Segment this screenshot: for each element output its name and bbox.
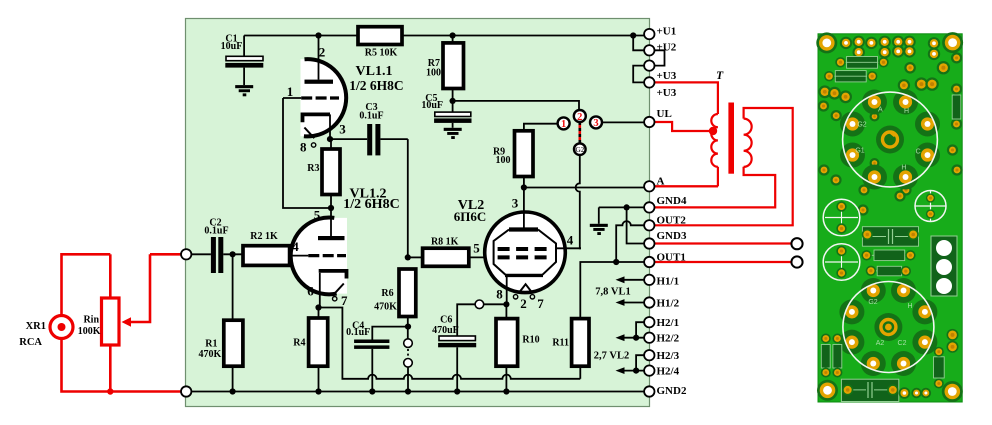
resistor R3	[330, 139, 332, 149]
junction R7 top at rail	[450, 32, 456, 38]
VL2 anode pin 3	[523, 188, 525, 230]
svg-text:R5 10K: R5 10K	[365, 48, 398, 59]
resistor R10	[496, 319, 518, 367]
wire third terminal to +U3 inner link	[633, 66, 644, 83]
svg-text:H: H	[904, 108, 909, 115]
svg-text:GND4: GND4	[657, 195, 687, 207]
VL1.1 anode lead pin 2	[318, 36, 320, 80]
wire primary bottom to terminal A	[655, 185, 718, 187]
junction C4 branch	[405, 324, 411, 330]
junction R1 at rail	[230, 388, 236, 394]
junction VL2 cathode node	[503, 301, 509, 307]
wire tap3 to UL terminal	[602, 121, 644, 123]
svg-text:1: 1	[287, 84, 294, 99]
wire OUT1 to R11	[580, 262, 644, 319]
ground below C5	[444, 128, 462, 131]
VL2 heater	[519, 284, 533, 293]
svg-text:H2/4: H2/4	[657, 366, 680, 378]
svg-text:A2: A2	[876, 340, 885, 347]
svg-text:470K: 470K	[199, 349, 222, 360]
junction OUT2 to OUT1 line	[613, 259, 619, 265]
svg-text:T: T	[716, 70, 724, 82]
VL2 cathode pin 8 lead	[506, 276, 508, 304]
svg-text:4: 4	[567, 233, 574, 248]
junction R4 at rail	[315, 388, 321, 394]
resistor R6 470K	[399, 269, 416, 317]
input terminal top	[181, 249, 191, 259]
wire +U1 to +U2 link	[633, 36, 645, 51]
svg-text:UL: UL	[657, 108, 672, 120]
svg-text:+U2: +U2	[657, 41, 677, 53]
junction C6 at rail	[454, 388, 460, 394]
capacitor C6 470uF	[439, 336, 475, 341]
svg-text:G2: G2	[868, 299, 877, 306]
pentode VL2 envelope	[485, 212, 566, 293]
svg-text:5: 5	[314, 208, 321, 223]
VL2 screen grid dashes	[498, 247, 549, 251]
svg-text:7,8 VL1: 7,8 VL1	[595, 287, 630, 298]
terminal row on right edge	[644, 26, 687, 397]
wire OUT1 to speaker terminal	[655, 261, 792, 263]
schematic panel background	[186, 19, 650, 407]
svg-text:OUT2: OUT2	[657, 214, 687, 226]
resistor R8 1K	[408, 256, 423, 258]
wiper arrow of Rin	[128, 254, 150, 322]
VL1.2 cathode pin 6	[319, 271, 347, 279]
svg-text:R11: R11	[552, 338, 569, 349]
tap circle 3	[590, 116, 602, 128]
capacitor C5 10uF	[452, 101, 454, 112]
svg-text:2: 2	[520, 296, 527, 311]
jumper circle at VL2 cathode	[475, 300, 484, 309]
VL1.1 grid pin 1	[283, 97, 301, 99]
wire terminal A red stub	[655, 185, 718, 187]
svg-text:H: H	[907, 303, 912, 310]
svg-text:C2: C2	[898, 340, 907, 347]
junction R6 R8 node	[405, 254, 411, 260]
svg-text:10uF: 10uF	[221, 41, 243, 52]
svg-text:G2: G2	[857, 122, 866, 129]
svg-text:100K: 100K	[78, 326, 101, 337]
ground below C1	[235, 85, 253, 88]
VL1.2 grid pin 4	[290, 255, 309, 257]
svg-text:H2/2: H2/2	[657, 333, 680, 345]
input terminal bottom	[181, 386, 191, 396]
heater arrow H2/2	[622, 337, 644, 339]
junction R6 jumper at rail	[405, 388, 411, 394]
wire OUT2 with hop over ground link	[616, 221, 644, 262]
resistor R9 100	[524, 124, 558, 131]
svg-text:1/2 6H8C: 1/2 6H8C	[343, 197, 399, 212]
svg-text:R8 1K: R8 1K	[431, 237, 459, 248]
svg-text:10uF: 10uF	[421, 100, 443, 111]
resistor R4	[309, 318, 328, 366]
speaker terminal OUT1	[791, 256, 802, 267]
svg-text:3: 3	[339, 122, 346, 137]
svg-text:R10: R10	[522, 334, 539, 345]
red dashed link tap2 to G2	[578, 122, 581, 144]
svg-text:VL1.1: VL1.1	[356, 64, 393, 79]
svg-text:+U3: +U3	[657, 70, 677, 82]
svg-text:XR1: XR1	[26, 321, 46, 332]
wire G2 to VL2 screen with hop	[576, 155, 581, 248]
wire GND4 line	[599, 206, 645, 208]
junction VL1.1 anode at rail	[315, 32, 321, 38]
svg-text:3: 3	[593, 118, 598, 129]
svg-text:6П6С: 6П6С	[454, 209, 487, 224]
svg-text:+U1: +U1	[657, 26, 677, 38]
resistor R1 470K	[232, 254, 234, 320]
svg-text:7: 7	[537, 296, 544, 311]
wire pin8 to jumper circle	[484, 303, 507, 305]
wire +U3 to transformer primary	[655, 82, 718, 114]
svg-text:0.1uF: 0.1uF	[359, 110, 383, 121]
svg-text:1: 1	[561, 119, 566, 130]
wire secondary bottom to GND4	[655, 167, 776, 208]
svg-text:R3: R3	[307, 163, 319, 174]
resistor R5 10K	[358, 27, 402, 45]
svg-text:2: 2	[577, 112, 582, 123]
wire R7 bottom to tap 2	[453, 101, 579, 111]
wire VL2 anode to terminal A	[524, 187, 645, 189]
transformer T core	[728, 103, 734, 174]
svg-text:H1/2: H1/2	[657, 297, 680, 309]
triode VL1.1 envelope	[301, 59, 347, 136]
svg-text:7: 7	[341, 293, 348, 308]
wire C3 to R6 R8 node	[407, 139, 409, 257]
wire jack bottom to ground terminal	[62, 339, 183, 392]
wire jack top to potentiometer	[62, 254, 111, 315]
junction C4 at rail	[369, 388, 375, 394]
wire R6 bottom to jumper	[407, 317, 409, 339]
VL1.2 heater pin 7	[335, 284, 344, 294]
transformer T secondary winding	[744, 119, 752, 167]
wire secondary top to OUT2	[655, 108, 793, 225]
svg-text:H2/1: H2/1	[657, 317, 680, 329]
svg-text:A: A	[878, 107, 883, 114]
feedback wire with hops	[319, 308, 581, 379]
svg-text:470K: 470K	[374, 302, 397, 313]
junction C5 R7 bottom	[450, 98, 456, 104]
heater link H2/3 to H2/4	[636, 355, 644, 370]
svg-text:2: 2	[319, 45, 326, 60]
wire +U2 to third terminal outer link	[655, 50, 665, 65]
resistor R7 100	[452, 36, 454, 43]
VL2 beam plate outline	[494, 230, 509, 275]
VL2 cathode bar	[505, 274, 543, 277]
VL1.2 anode lead pin 5	[330, 208, 332, 236]
svg-text:4: 4	[292, 239, 299, 254]
svg-text:R6: R6	[381, 288, 393, 299]
junction C2 R1	[230, 251, 236, 257]
junction +U2 branch at rail	[630, 32, 636, 38]
svg-text:G1: G1	[855, 148, 864, 155]
svg-text:1/2 6H8C: 1/2 6H8C	[349, 78, 403, 93]
heater link H2/1 to H2/2	[636, 322, 644, 338]
VL2 heater pins 2 and 7	[513, 295, 517, 299]
svg-text:Rin: Rin	[83, 315, 99, 326]
svg-text:0.1uF: 0.1uF	[346, 327, 370, 338]
svg-text:GND3: GND3	[657, 230, 687, 242]
jumper circle G2	[574, 143, 586, 155]
svg-text:H1/1: H1/1	[657, 276, 680, 288]
VL2 control grid dashes	[498, 255, 549, 259]
wire B+ top rail	[244, 35, 358, 37]
junction primary tap	[709, 127, 717, 135]
junction GND4 branch	[624, 204, 630, 210]
svg-text:RCA: RCA	[19, 337, 42, 348]
heater arrow H2/4	[622, 370, 644, 372]
svg-text:R2 1K: R2 1K	[250, 231, 278, 242]
triode VL1.2 envelope	[291, 218, 347, 295]
junction VL1.2 anode node	[328, 205, 334, 211]
svg-text:GND2: GND2	[657, 385, 687, 397]
svg-text:+U3: +U3	[657, 87, 677, 99]
ground symbol near GND4	[598, 207, 600, 223]
resistor R11	[572, 319, 589, 367]
heater arrow H1/2	[622, 302, 644, 304]
svg-text:8: 8	[496, 287, 503, 302]
capacitor C2 0.1uF	[191, 253, 211, 255]
svg-text:H2/3: H2/3	[657, 350, 680, 362]
svg-text:OUT1: OUT1	[657, 251, 686, 263]
svg-text:H: H	[901, 164, 906, 171]
svg-text:R4: R4	[293, 338, 305, 349]
transformer T primary winding	[711, 114, 718, 167]
speaker terminal GND3	[791, 238, 802, 249]
resistor R2 1K	[243, 246, 290, 266]
capacitor C1 10uF	[243, 36, 245, 57]
VL1.1 cathode	[303, 114, 331, 122]
svg-text:5: 5	[473, 241, 480, 256]
junction VL1.2 cathode R4 top	[315, 304, 321, 310]
junction VL1.1 cathode node	[327, 136, 333, 142]
wire UL terminal to primary tap	[655, 122, 711, 131]
tap circle 2	[574, 110, 586, 122]
capacitor C4 0.1uF	[372, 327, 408, 340]
jumper connector circles below R6	[404, 339, 413, 348]
svg-text:A: A	[657, 176, 665, 188]
VL1.1 heater pin 8	[304, 128, 314, 139]
wire VL1.1 grid to VL1.2 anode node	[283, 98, 331, 208]
wire jumper to C6	[457, 304, 475, 336]
svg-text:G2: G2	[575, 146, 585, 154]
junction VL2 anode node	[521, 184, 527, 190]
VL2 screen pin 4 wire	[556, 247, 581, 249]
heater arrow H1/1	[622, 279, 644, 281]
svg-text:3: 3	[512, 196, 519, 211]
svg-text:C: C	[916, 149, 921, 156]
potentiometer Rin 100K	[102, 298, 120, 345]
svg-text:R1: R1	[205, 339, 217, 350]
printed circuit board photo	[816, 32, 963, 402]
svg-text:100: 100	[496, 155, 511, 166]
svg-text:2,7 VL2: 2,7 VL2	[594, 351, 629, 362]
wire ground bottom rail	[186, 391, 645, 393]
svg-text:8: 8	[300, 140, 307, 155]
svg-text:470uF: 470uF	[432, 325, 459, 336]
svg-text:6: 6	[307, 283, 314, 298]
wire GND3 to speaker terminal	[655, 242, 792, 244]
svg-text:100: 100	[426, 68, 441, 79]
junction R10 at rail	[503, 388, 509, 394]
wire wiper to input terminal	[150, 253, 183, 256]
svg-text:0.1uF: 0.1uF	[204, 226, 228, 237]
junction red pot bottom	[107, 388, 113, 394]
tap circle 1	[558, 117, 570, 129]
wire GND4 to GND3	[627, 207, 645, 243]
RCA jack XR1	[50, 316, 73, 339]
capacitor C3 0.1uF	[330, 138, 367, 140]
